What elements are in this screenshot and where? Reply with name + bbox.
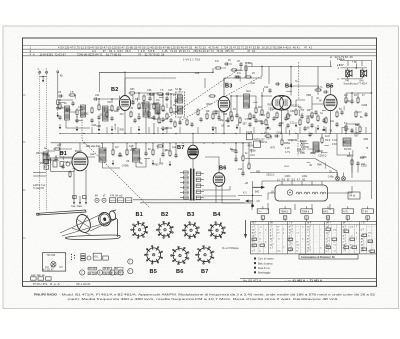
wire top mid link	[213, 63, 252, 78]
svg-text:Rete di c.a.: Rete di c.a.	[258, 267, 270, 270]
capacitor C3	[58, 94, 63, 97]
coil L8	[133, 149, 140, 162]
dial pulley	[97, 211, 112, 227]
svg-text:C08: C08	[118, 155, 123, 158]
junction J8	[153, 93, 154, 94]
wire B2 grid wire	[98, 96, 119, 104]
resistor R23	[317, 114, 319, 122]
dial tuning shaft	[38, 210, 86, 215]
vibrator contact circle	[287, 190, 292, 195]
svg-text:B2: B2	[161, 212, 168, 218]
socket view B2	[156, 221, 173, 238]
wire battery feed horizontal	[238, 195, 262, 197]
resistor R46	[249, 112, 251, 120]
stray connection strokes	[50, 70, 361, 169]
switch table subcolumn rules	[258, 224, 372, 254]
junction J14	[261, 95, 262, 96]
svg-text:C15: C15	[168, 89, 173, 92]
resistor R22	[311, 111, 313, 119]
svg-text:H1.8: H1.8	[325, 139, 331, 142]
tube B3 electrodes	[220, 101, 228, 107]
switch wafer lead 4	[327, 219, 329, 221]
capacitor C26	[275, 82, 280, 85]
junction J23	[124, 72, 125, 73]
wire right col net	[346, 93, 358, 101]
svg-text:811: 811	[330, 120, 334, 123]
parts table rules	[23, 45, 377, 47]
svg-text:C929: C929	[151, 103, 157, 106]
svg-text:4 1146-8363 72-63-67: 4 1146-8363 72-63-67 7246-80-8223-84-71 …	[33, 52, 165, 56]
resistor R45	[208, 95, 216, 97]
capacitor C11	[137, 115, 140, 120]
wire B1 to dial drive	[74, 170, 86, 200]
capacitor C44	[356, 161, 359, 166]
capacitor C14	[161, 117, 164, 122]
terminal lamp E2	[102, 198, 106, 202]
wire B3 cathode net	[213, 111, 224, 117]
junction battery end dot	[251, 204, 254, 207]
ground GND2	[76, 126, 78, 131]
svg-text:Commutatore di Posizioni S1: Commutatore di Posizioni S1	[301, 256, 335, 259]
resistor R37	[69, 170, 71, 178]
svg-text:Soundfly aud 77 4014: Soundfly aud 77 4014	[344, 83, 368, 86]
svg-text:RΔ: RΔ	[206, 110, 210, 113]
resistor R39	[248, 162, 250, 170]
ground GND12	[323, 126, 325, 131]
coil IF1a	[177, 95, 182, 103]
svg-text:C84: C84	[290, 110, 295, 113]
svg-text:89M: 89M	[306, 94, 311, 97]
svg-text:C436k: C436k	[122, 165, 130, 168]
terminal lamp E1	[95, 198, 99, 202]
svg-text:743 346: 743 346	[47, 254, 56, 257]
svg-text:- — 41 462 A - 71 481 A: - — 41 462 A - 71 481 A	[285, 278, 323, 282]
svg-text:C48: C48	[129, 145, 134, 148]
svg-text:R36: R36	[195, 72, 200, 75]
svg-text:405M: 405M	[161, 128, 167, 131]
svg-text:o .: o .	[259, 250, 262, 253]
resistor R27	[357, 96, 359, 104]
svg-text:871p: 871p	[311, 152, 317, 155]
resistor R16	[255, 106, 257, 114]
resistor R43	[351, 158, 353, 166]
capacitor C13	[165, 92, 170, 95]
switch wafer lead 3	[306, 219, 308, 221]
transformer T1 core	[191, 169, 194, 201]
tube B4 electrodes	[272, 96, 290, 109]
svg-text:84M: 84M	[364, 138, 369, 141]
wire B3 anode net	[231, 96, 256, 115]
svg-text:R50: R50	[120, 129, 125, 132]
earth terminal E	[57, 71, 59, 73]
vibrator top pins	[282, 181, 322, 185]
coil L2	[81, 105, 86, 117]
svg-text:C531 Ω: C531 Ω	[266, 173, 274, 176]
switch position table outline	[251, 222, 377, 254]
wire transformer secondary to vibrator	[202, 186, 236, 196]
tube B7 dark electrodes overlay	[189, 150, 198, 155]
ground GND3	[98, 126, 100, 131]
capacitor C18	[235, 113, 238, 118]
capacitor C45	[199, 117, 202, 122]
resistor R58	[265, 118, 267, 126]
resistor R30	[112, 148, 114, 156]
svg-text:. -: . -	[314, 235, 316, 238]
socket view B7	[196, 245, 215, 264]
svg-text:B4: B4	[213, 212, 221, 218]
svg-text:B3: B3	[187, 212, 194, 218]
resistor R19	[267, 111, 269, 119]
loudspeaker LS1	[346, 70, 352, 77]
wire earth lead	[57, 73, 59, 98]
svg-text:84 Ω: 84 Ω	[266, 127, 271, 130]
svg-text:C83k: C83k	[130, 149, 136, 152]
capacitor C4	[58, 115, 61, 120]
switch wafer label box 5	[342, 209, 354, 214]
svg-text:C97: C97	[79, 109, 84, 112]
wire B6 top lead	[205, 157, 219, 173]
svg-text:Corr. di marcia: Corr. di marcia	[258, 258, 274, 261]
switch wafer label box 2	[279, 209, 291, 214]
svg-text:4.25: 4.25	[285, 147, 290, 150]
wire AVC dashed	[182, 76, 262, 120]
terminal strip label box 5	[115, 267, 124, 270]
switch wafer label box 1	[257, 209, 269, 214]
svg-text:R235M: R235M	[301, 146, 309, 149]
resistor R29	[359, 125, 361, 133]
resistor R40	[264, 135, 272, 137]
capacitor C58	[284, 116, 287, 121]
wire antenna center stub	[42, 77, 44, 81]
svg-text:285 Ω: 285 Ω	[138, 107, 145, 110]
wire dashed diagonal to dial	[82, 114, 150, 208]
ground GND11	[317, 125, 319, 130]
svg-text:C02: C02	[250, 82, 255, 85]
coil L9	[43, 152, 48, 163]
capacitor C16b	[239, 62, 242, 67]
socket view B3	[182, 222, 199, 239]
resistor R54	[148, 110, 150, 118]
svg-text:7—: 7—	[258, 210, 262, 213]
ground GND9	[267, 124, 269, 129]
power supply box	[42, 253, 65, 271]
connector block K1	[110, 198, 116, 203]
wire B1 bottom arrows	[74, 196, 86, 203]
svg-text:7 86: 7 86	[352, 61, 357, 64]
svg-text:Cмк Cмм: Cмк Cмм	[71, 205, 82, 208]
svg-text:H. 32.9.79.52. 26: H. 32.9.79.52. 26	[330, 55, 353, 59]
legend item 2	[254, 262, 256, 264]
resistor R57	[239, 116, 241, 124]
wire antenna tie	[40, 76, 47, 78]
terminal 5 circled	[128, 269, 133, 274]
svg-text:C96: C96	[223, 113, 228, 116]
ground GND5	[138, 126, 140, 131]
junction J18	[371, 92, 372, 93]
wire B3 anode run	[224, 78, 262, 97]
svg-text:L1 4.5 87 8.5 4.7 N2: L1 4.5 87 8.5 4.7 N2	[277, 179, 306, 182]
svg-text:Au. B1 471 A: Au. B1 471 A	[243, 278, 262, 282]
resistor R41	[281, 138, 283, 146]
resistor R33b	[156, 145, 164, 147]
wire LS2 top lead	[361, 68, 363, 70]
capacitor C55	[178, 120, 181, 125]
resistor R49	[186, 118, 188, 126]
wire FM line 2	[66, 120, 90, 128]
svg-text:143: 143	[361, 163, 366, 166]
svg-text:84м: 84м	[96, 145, 101, 148]
resistor R21	[295, 108, 297, 116]
svg-text:K-1: K-1	[243, 192, 247, 195]
junction J26	[166, 93, 167, 94]
wire lamp feed	[338, 166, 359, 177]
dial cord	[60, 213, 112, 236]
junction J19	[235, 142, 236, 143]
capacitor C42	[274, 134, 279, 137]
svg-text:C12: C12	[290, 121, 295, 124]
resistor R64	[174, 120, 176, 128]
antenna terminal A1	[39, 71, 41, 73]
junction J16	[290, 85, 291, 86]
pilot lamp P2	[342, 177, 346, 181]
choke dashed	[297, 138, 299, 156]
resistor R28	[345, 124, 347, 132]
wire vibrator feed wires	[262, 181, 372, 200]
junction speaker bus	[356, 67, 358, 69]
resistor R55	[166, 112, 168, 120]
capacitor C31	[350, 99, 353, 104]
resistor R44	[206, 112, 208, 120]
wire B1 grid wire	[48, 149, 72, 158]
capacitor C8	[97, 115, 100, 120]
resistor R18	[261, 108, 263, 116]
svg-text:C49 Ω: C49 Ω	[298, 151, 305, 154]
ground GND14	[152, 160, 154, 165]
capacitor C19	[254, 118, 257, 123]
rectifier box	[254, 141, 261, 148]
wire mid band bottom link	[103, 158, 147, 168]
svg-text:C96p: C96p	[299, 108, 305, 111]
power box terminals	[45, 266, 63, 268]
coil L7	[99, 148, 106, 162]
capacitor C40	[234, 157, 237, 162]
svg-text:Sм4: Sм4	[246, 90, 251, 93]
dial lamp cluster	[71, 254, 75, 260]
resistor R56	[197, 108, 199, 116]
svg-text:C72: C72	[141, 102, 146, 105]
capacitor C62	[148, 96, 151, 101]
coil IF1b	[177, 106, 182, 114]
ground GND8	[236, 124, 238, 129]
svg-text:7 84: 7 84	[363, 210, 368, 213]
switch wafer label box 6	[362, 209, 374, 214]
terminal 1 circled	[80, 270, 85, 275]
capacitor C46	[248, 122, 251, 127]
svg-text:B5: B5	[150, 269, 157, 275]
resistor R63	[158, 116, 160, 124]
resistor R15	[230, 110, 232, 118]
wire output drops	[253, 134, 323, 141]
resistor R31	[126, 148, 128, 156]
wire dashed screen line	[298, 62, 300, 100]
capacitor C60	[340, 110, 343, 115]
capacitor C50	[226, 118, 229, 123]
wire B2 anode to B3	[125, 78, 176, 96]
capacitor C32	[350, 128, 353, 133]
tube B3 envelope	[218, 97, 230, 112]
wire IF1 leads	[179, 88, 181, 123]
title strip rule	[23, 281, 377, 283]
output terminal box	[348, 192, 360, 199]
svg-text:Cк4: Cк4	[264, 86, 269, 89]
capacitor C43	[308, 132, 311, 137]
resistor R17	[244, 76, 252, 78]
resistor R0	[57, 98, 59, 106]
svg-text:B1: B1	[60, 151, 67, 157]
wire output run 1	[245, 159, 337, 179]
capacitor C35	[161, 152, 164, 157]
svg-text:B4: B4	[285, 84, 293, 90]
svg-text:B3: B3	[225, 84, 232, 90]
svg-text:C382: C382	[354, 132, 360, 135]
tube B5 electrodes	[326, 99, 336, 105]
wire B1 plate drop	[79, 143, 81, 152]
svg-text:C62: C62	[84, 113, 89, 116]
capacitor C29	[335, 122, 338, 127]
wire left antenna lead 1 dotted	[39, 71, 41, 212]
svg-text:o -: o -	[296, 250, 299, 253]
terminal strip label box 6	[115, 272, 124, 275]
resistor R42	[321, 136, 323, 144]
svg-text:C49p: C49p	[328, 176, 334, 179]
spare part box 2	[38, 277, 44, 280]
legend item 1	[254, 258, 256, 260]
svg-text:. -: . -	[314, 229, 316, 232]
legend item 3	[254, 267, 256, 269]
resistor R61	[355, 110, 357, 118]
resistor R38	[242, 154, 244, 162]
wire AGC dashed diagonal	[160, 72, 235, 123]
svg-text:597: 597	[243, 123, 248, 126]
resistor R24	[336, 110, 338, 118]
terminal strip label box 1	[88, 267, 97, 270]
fuse F1 box	[247, 134, 253, 140]
capacitor C0	[56, 106, 59, 111]
capacitor C28	[322, 118, 325, 123]
wire B5 plate up	[330, 86, 332, 95]
svg-text:955: 955	[256, 171, 261, 174]
svg-text:425p: 425p	[345, 100, 351, 103]
capacitor C49	[190, 122, 193, 127]
bus junction dots	[59, 133, 360, 144]
svg-text:R65: R65	[355, 124, 360, 127]
tube B6 electrodes	[215, 176, 223, 182]
switch wafer pin 4	[326, 216, 329, 219]
resistor R36	[53, 148, 61, 150]
coil L11	[155, 104, 160, 114]
dial base plate	[65, 235, 120, 239]
resistor R26	[345, 96, 347, 104]
upper band tie wires	[92, 127, 366, 134]
terminal 3 circled	[110, 270, 115, 275]
svg-text:. .: . .	[314, 247, 316, 250]
connector block K3	[126, 198, 132, 203]
svg-text:м84 кмм: м84 кмм	[86, 145, 96, 148]
wire bus drops top	[262, 61, 331, 87]
dial pulley hub	[108, 210, 116, 220]
svg-text:B6: B6	[219, 166, 226, 172]
value annotation scatter	[36, 72, 369, 178]
IF transformer IF1 box	[176, 92, 185, 117]
svg-text:Rм2: Rм2	[258, 106, 263, 109]
schematic frame border	[23, 38, 377, 286]
resistor R59	[299, 118, 301, 126]
resistor R52	[106, 110, 108, 118]
resistor R12	[214, 67, 222, 69]
resistor R5	[111, 104, 113, 112]
capacitor C15	[169, 118, 172, 123]
svg-text:42M: 42M	[258, 120, 263, 123]
wire LS2 bottom lead	[361, 77, 363, 79]
svg-text:478 84 м5: 478 84 м5	[110, 195, 123, 198]
spare part box 1	[31, 277, 37, 280]
wire mid horizontal under B1 row	[60, 143, 95, 157]
arrow to battery right	[253, 186, 266, 189]
svg-text:C865k: C865k	[360, 156, 368, 159]
switch wafer pin 5	[346, 216, 349, 219]
resistor R32	[152, 148, 154, 156]
capacitor C23	[286, 123, 289, 128]
svg-text:C260 Ω: C260 Ω	[318, 155, 326, 158]
ground GND4	[111, 126, 113, 131]
capacitor C63	[165, 96, 168, 101]
capacitor C47	[278, 122, 281, 127]
svg-text:R294: R294	[286, 115, 292, 118]
svg-text:o .: o .	[368, 235, 371, 238]
junction J17	[351, 92, 352, 93]
svg-text:R25м: R25м	[284, 142, 290, 145]
small stack left of B1	[44, 160, 49, 164]
junction J24	[252, 195, 253, 196]
wire FM line 1	[58, 100, 77, 112]
svg-text:- -: - -	[368, 226, 370, 229]
arrow to battery left	[245, 200, 253, 203]
resistor R48	[307, 116, 309, 124]
wire output run 2	[250, 172, 337, 174]
svg-text:Lм2 2мк мк: Lм2 2мк мк	[31, 274, 46, 277]
connector block K2	[118, 198, 124, 203]
ground GND15	[169, 161, 171, 166]
transformer T1 primary winding taps	[180, 171, 188, 199]
wire B+ bus mid	[51, 142, 252, 144]
switch wafer pin 3	[305, 216, 308, 219]
svg-text:FM 84: FM 84	[344, 148, 351, 151]
capacitor C17	[217, 115, 220, 120]
junction J20	[242, 142, 243, 143]
svg-text:. -: . -	[314, 241, 316, 244]
junction J21	[261, 66, 262, 67]
resistor R10	[162, 104, 164, 112]
junction J11	[212, 72, 213, 73]
wire right HT bus	[371, 86, 373, 199]
svg-text:413: 413	[120, 113, 125, 116]
svg-text:84 6: 84 6	[323, 210, 328, 213]
switch table component marks	[252, 228, 375, 253]
antenna terminal A2	[46, 71, 48, 73]
resistor R7	[138, 102, 140, 110]
tube B5 envelope	[324, 95, 337, 111]
resistor R53	[130, 110, 132, 118]
